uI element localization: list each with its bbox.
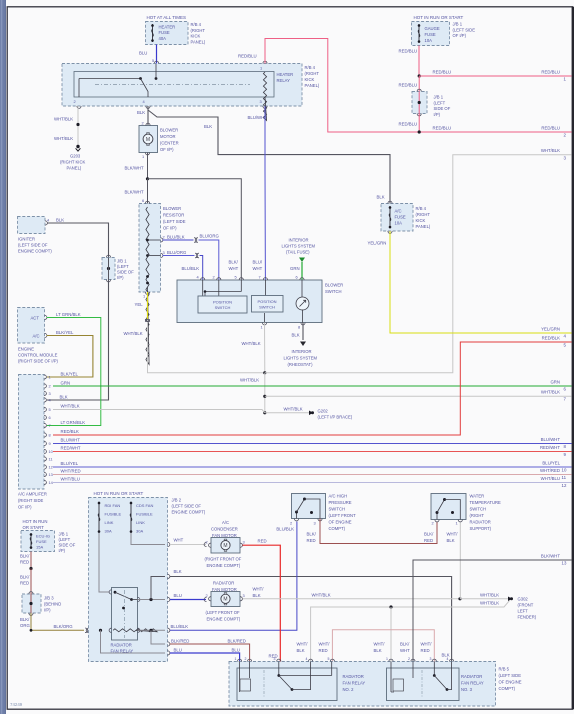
svg-text:RED: RED <box>319 648 328 653</box>
svg-text:BLU/BLK: BLU/BLK <box>182 266 200 271</box>
svg-text:WHT/BLU: WHT/BLU <box>541 476 560 481</box>
svg-text:I/P): I/P) <box>59 548 66 553</box>
svg-text:ORG: ORG <box>20 623 30 628</box>
svg-text:WHT/BLK: WHT/BLK <box>61 404 80 409</box>
svg-text:OF ENGINE: OF ENGINE <box>499 680 522 685</box>
fuse GAUGE FUSE 10A (J/B 1) <box>412 22 476 46</box>
svg-text:COMPT): COMPT) <box>499 686 516 691</box>
svg-text:BLK: BLK <box>204 124 212 129</box>
wire BLU J/B2 to radiator fan relay No.2 pin 1 <box>170 648 240 662</box>
svg-text:PANEL): PANEL) <box>191 39 206 44</box>
svg-text:YEL/GRN: YEL/GRN <box>541 327 560 332</box>
wire BLK/ORG J/B 3 to J/B 2 radiator fan relay coil <box>20 613 101 633</box>
svg-text:RED/BLU: RED/BLU <box>238 54 257 59</box>
wire CDS fusible link to WHT output <box>131 533 170 547</box>
svg-text:5: 5 <box>152 58 154 63</box>
svg-text:J/B 1: J/B 1 <box>434 95 444 100</box>
wire WHT/BLK A/C amplifier pin 5 to junction <box>53 404 265 413</box>
svg-text:BLK/YEL: BLK/YEL <box>56 330 74 335</box>
svg-text:BLU/ORG: BLU/ORG <box>200 234 220 239</box>
svg-text:BLK: BLK <box>253 593 261 598</box>
blower switch bottom pins <box>261 313 306 330</box>
svg-text:A/C: A/C <box>33 334 40 339</box>
svg-text:POSITION: POSITION <box>257 299 276 304</box>
svg-text:HEATER: HEATER <box>159 25 176 30</box>
svg-text:8: 8 <box>298 325 300 330</box>
svg-text:(RIGHT KICK: (RIGHT KICK <box>60 160 85 165</box>
svg-text:6: 6 <box>49 415 51 420</box>
svg-text:1: 1 <box>456 521 458 526</box>
svg-text:10A: 10A <box>395 221 403 226</box>
svg-text:I/P): I/P) <box>44 608 51 613</box>
svg-text:ENGINE COMPT): ENGINE COMPT) <box>207 617 241 622</box>
wire BLU/ORG resistor pin 3 to connector <box>148 250 200 258</box>
svg-text:BLK/: BLK/ <box>400 642 410 647</box>
wire RED/BLU row 1 to right edge <box>419 70 571 82</box>
svg-text:(RIGHT: (RIGHT <box>191 28 206 33</box>
wire BLU/YEL A/C amplifier pin 12 to right edge row 10 <box>53 461 572 473</box>
svg-text:3: 3 <box>274 657 276 661</box>
svg-text:(LEFT SIDE OF: (LEFT SIDE OF <box>18 243 48 248</box>
svg-text:BLU/YEL: BLU/YEL <box>61 461 79 466</box>
svg-text:RED: RED <box>307 538 316 543</box>
svg-text:WHT/: WHT/ <box>421 642 433 647</box>
lamp illumination bulb in blower switch <box>296 297 309 323</box>
svg-text:CONDENSER: CONDENSER <box>211 527 238 532</box>
svg-text:SUPPORT): SUPPORT) <box>470 526 492 531</box>
svg-text:GRN: GRN <box>550 380 560 385</box>
svg-text:BLK/: BLK/ <box>20 575 30 580</box>
svg-text:(LEFT FRONT: (LEFT FRONT <box>329 513 357 518</box>
svg-text:ENGINE: ENGINE <box>18 347 34 352</box>
svg-text:WHT/BLK: WHT/BLK <box>284 407 303 412</box>
node junction RED/BLU row 2 <box>418 130 421 133</box>
svg-text:BLU/WHT: BLU/WHT <box>541 437 561 442</box>
svg-text:J/B 3: J/B 3 <box>44 596 54 601</box>
fuse ECU-IG FUSE 15A (J/B 1) <box>21 531 76 554</box>
svg-text:MOTOR: MOTOR <box>160 134 176 139</box>
switch A/C HIGH PRESSURE SWITCH <box>290 494 356 532</box>
svg-text:2: 2 <box>206 540 208 545</box>
node junction WHT/BLK row 7 <box>263 395 266 398</box>
ground G202 <box>309 409 353 420</box>
svg-text:RED: RED <box>258 539 267 544</box>
svg-text:7: 7 <box>259 275 261 280</box>
svg-text:FUSE: FUSE <box>425 32 436 37</box>
svg-text:SWITCH: SWITCH <box>329 507 346 512</box>
svg-text:SIDE OF: SIDE OF <box>117 270 134 275</box>
wire RDI fusible link to radiator fan relay <box>99 533 109 592</box>
svg-text:BLK/ORG: BLK/ORG <box>54 624 74 629</box>
svg-text:10: 10 <box>562 468 567 473</box>
wire relay contact output to BLU and BLK rows <box>138 574 170 601</box>
svg-text:LT GRN/BLK: LT GRN/BLK <box>61 420 86 425</box>
svg-text:RESISTOR: RESISTOR <box>163 213 184 218</box>
svg-text:G202: G202 <box>318 409 329 414</box>
svg-text:(RIGHT FRONT OF: (RIGHT FRONT OF <box>205 557 242 562</box>
label HOT IN RUN OR START (top right) <box>414 15 464 20</box>
svg-text:BLK/YEL: BLK/YEL <box>61 372 79 377</box>
svg-text:RADIATOR: RADIATOR <box>461 674 482 679</box>
svg-text:WHT/: WHT/ <box>319 642 331 647</box>
relay RADIATOR FAN RELAY No. 2 <box>235 657 366 701</box>
svg-text:6: 6 <box>296 275 298 280</box>
wire BLK/RED ECU-IG fuse to J/B 3 <box>20 552 33 595</box>
svg-text:5: 5 <box>235 275 237 280</box>
wire WHT/RED A/C amplifier pin 13 to right edge row 11 <box>53 468 572 480</box>
wire BLU/ORG connector to blower switch pin 2 <box>199 234 220 281</box>
svg-text:(CENTER: (CENTER <box>160 141 179 146</box>
svg-text:30A: 30A <box>105 529 112 534</box>
svg-text:LINK: LINK <box>105 520 114 525</box>
svg-text:3: 3 <box>243 540 245 545</box>
wire BLK igniter to J/B1 connector <box>47 218 109 258</box>
wire RED/BLU junction to J/B 1 connector <box>399 76 420 92</box>
switch POSITION SWITCH (left) <box>198 296 247 313</box>
svg-text:OF ENGINE: OF ENGINE <box>329 520 352 525</box>
wire BLK J/B2 to radiator fan relay No.3 <box>170 569 452 662</box>
wire BLK heater relay pin 4 to blower motor pin 2 <box>137 106 148 125</box>
svg-text:74249: 74249 <box>10 702 23 707</box>
svg-text:2: 2 <box>245 657 247 661</box>
svg-text:BLK: BLK <box>297 648 305 653</box>
svg-text:SWITCH: SWITCH <box>259 304 275 309</box>
junction block J/B 2 (LEFT SIDE OF ENGINE COMPT) <box>89 498 206 662</box>
svg-text:(LEFT SIDE: (LEFT SIDE <box>499 673 522 678</box>
svg-text:NO. 2: NO. 2 <box>343 687 355 692</box>
svg-text:FUSIBLE: FUSIBLE <box>136 512 153 517</box>
wire BLU/BLK J/B2 to A/C high pressure switch pin 2 <box>170 522 297 631</box>
svg-text:TEMPERATURE: TEMPERATURE <box>470 500 502 505</box>
wire BLU J/B2 to radiator fan motor pin 2 <box>170 593 207 602</box>
switch WATER TEMPERATURE SWITCH <box>431 494 501 544</box>
node junction RED/BLU row 1 <box>418 74 421 77</box>
svg-text:(BEHIND: (BEHIND <box>44 602 61 607</box>
left blue page-edge strip <box>0 0 6 714</box>
svg-text:BLK: BLK <box>292 333 300 338</box>
svg-text:YEL: YEL <box>135 302 144 307</box>
wire RED/BLU gauge fuse down to row 1 junction <box>399 46 420 76</box>
svg-text:WHT/BLK: WHT/BLK <box>242 341 261 346</box>
svg-text:3: 3 <box>430 657 432 661</box>
svg-text:OF I/P): OF I/P) <box>163 226 177 231</box>
svg-text:(LEFT FRONT OF: (LEFT FRONT OF <box>206 610 240 615</box>
svg-text:BLU: BLU <box>139 51 147 56</box>
svg-text:M: M <box>223 543 227 549</box>
svg-text:(LEFT SIDE: (LEFT SIDE <box>453 27 476 32</box>
wire BLK/WHT radiator fan relay No.3 to right edge row 13 <box>413 554 572 662</box>
svg-text:I/P): I/P) <box>117 275 124 280</box>
relay RADIATOR FAN RELAY (in J/B 2) <box>109 588 157 654</box>
svg-text:GRN: GRN <box>290 266 300 271</box>
wire BLK branch to A/C fuse <box>148 110 390 204</box>
svg-text:12: 12 <box>49 465 53 470</box>
svg-text:3: 3 <box>260 99 262 104</box>
svg-text:1: 1 <box>260 66 262 71</box>
svg-text:40A: 40A <box>159 36 167 41</box>
svg-text:BLK/: BLK/ <box>424 532 434 537</box>
svg-text:BLK: BLK <box>60 395 68 400</box>
wire BLK J/B1 connector to A/C amplifier pin 4 <box>47 280 109 401</box>
svg-text:A/C AMPLIFER: A/C AMPLIFER <box>18 492 47 497</box>
svg-text:WHT/BLK: WHT/BLK <box>54 117 73 122</box>
svg-text:RDI FAN: RDI FAN <box>105 503 121 508</box>
svg-text:WHT/RED: WHT/RED <box>540 468 560 473</box>
resistor BLOWER RESISTOR (LEFT SIDE OF I/P) <box>139 198 186 365</box>
svg-text:RED/BLU: RED/BLU <box>541 70 560 75</box>
svg-text:NO. 3: NO. 3 <box>461 687 473 692</box>
switch BLOWER SWITCH <box>177 275 343 323</box>
svg-text:2: 2 <box>142 121 144 126</box>
svg-text:2: 2 <box>432 521 434 526</box>
svg-text:RED/WHT: RED/WHT <box>61 446 81 451</box>
module A/C AMPLIFIER (RIGHT SIDE OF I/P) <box>18 375 54 510</box>
svg-text:4: 4 <box>306 657 308 661</box>
svg-text:WHT/BLK: WHT/BLK <box>541 148 560 153</box>
svg-text:LINK: LINK <box>136 520 145 525</box>
svg-text:BLU/: BLU/ <box>253 260 263 265</box>
wire WHT/BLU A/C amplifier pin 14 to right edge row 12 <box>53 476 572 488</box>
svg-text:WHT/BLK: WHT/BLK <box>480 601 499 606</box>
svg-text:R/B 5: R/B 5 <box>499 667 510 672</box>
svg-text:J/B 1: J/B 1 <box>117 259 127 264</box>
svg-text:3: 3 <box>49 391 51 396</box>
wire BLK/RED J/B2 to radiator fan relay No.2 pin 2 <box>170 639 250 662</box>
svg-text:5: 5 <box>328 657 330 661</box>
fusible link CDS FAN 30A <box>130 502 154 534</box>
svg-text:ENGINE COMPT): ENGINE COMPT) <box>172 510 206 515</box>
svg-text:(LEFT I/P BRACE): (LEFT I/P BRACE) <box>318 415 353 420</box>
svg-text:3: 3 <box>314 521 316 526</box>
svg-text:FENDER): FENDER) <box>518 615 537 620</box>
svg-text:BLU/BLK: BLU/BLK <box>171 624 189 629</box>
wire BLK/WHT junction to blower resistor pin 6 <box>125 179 148 204</box>
svg-text:WATER: WATER <box>470 494 485 499</box>
svg-text:RADIATOR: RADIATOR <box>343 674 364 679</box>
svg-text:FAN RELAY: FAN RELAY <box>461 681 484 686</box>
svg-text:2: 2 <box>163 235 165 240</box>
wire BLU heater fuse to heater relay pin 5 <box>139 45 159 64</box>
wire RED/BLU heater relay pin 1 loop to right edge row 2 <box>238 39 572 133</box>
svg-text:(RIGHT SIDE OF I/P): (RIGHT SIDE OF I/P) <box>18 359 59 364</box>
svg-text:WHT: WHT <box>253 266 263 271</box>
svg-text:GRN: GRN <box>61 381 71 386</box>
svg-text:BLK: BLK <box>447 538 455 543</box>
ground G203 <box>60 145 85 171</box>
svg-text:OF I/P): OF I/P) <box>453 33 467 38</box>
ground G302 <box>508 597 537 620</box>
svg-text:2: 2 <box>206 593 208 598</box>
fuse HEATER FUSE 40A (R/B 4) <box>146 22 206 45</box>
svg-text:BLK: BLK <box>174 569 182 574</box>
svg-text:(RIGHT: (RIGHT <box>305 71 320 76</box>
svg-text:HOT IN RUN OR START: HOT IN RUN OR START <box>414 15 464 20</box>
svg-text:J/B 1: J/B 1 <box>59 532 69 537</box>
svg-text:WHT/BLK: WHT/BLK <box>54 136 73 141</box>
svg-text:RED: RED <box>20 581 29 586</box>
connector J/B 1 (left side of I/P) mid <box>102 255 134 282</box>
svg-text:SIDE OF: SIDE OF <box>59 543 76 548</box>
wire RED/BLK A/C amplifier pin 8 to right edge row 5 <box>53 336 572 436</box>
svg-text:RED: RED <box>20 560 29 565</box>
svg-text:LEFT: LEFT <box>518 609 529 614</box>
svg-text:2: 2 <box>49 384 51 389</box>
svg-text:BLK/WHT: BLK/WHT <box>125 166 144 171</box>
label HOT AT ALL TIMES <box>147 15 187 20</box>
svg-text:HEATER: HEATER <box>277 72 294 77</box>
wire RED/WHT A/C amplifier pin 10 to right edge row 9 <box>53 445 572 457</box>
svg-text:I/P): I/P) <box>434 112 441 117</box>
svg-text:BLK: BLK <box>374 648 382 653</box>
svg-text:FAN RELAY: FAN RELAY <box>343 681 366 686</box>
svg-text:BLK/: BLK/ <box>307 532 317 537</box>
svg-text:(LEFT SIDE OF: (LEFT SIDE OF <box>172 504 202 509</box>
svg-text:RED/BLU: RED/BLU <box>399 49 418 54</box>
svg-text:OF I/P): OF I/P) <box>18 505 32 510</box>
svg-text:WHT/BLK: WHT/BLK <box>312 593 331 598</box>
label HOT IN RUN OR START (ECU-IG) <box>23 519 48 530</box>
wire WHT/BLK radiator fan motor pin 3 to junction <box>243 587 461 599</box>
svg-text:6: 6 <box>142 198 144 203</box>
svg-text:WHT/: WHT/ <box>297 642 309 647</box>
svg-text:8: 8 <box>49 433 51 438</box>
svg-text:BLK/: BLK/ <box>229 260 239 265</box>
svg-text:2: 2 <box>290 521 292 526</box>
svg-text:BLU/WHT: BLU/WHT <box>248 115 268 120</box>
svg-text:RED/BLU: RED/BLU <box>433 70 452 75</box>
svg-text:HOT AT ALL TIMES: HOT AT ALL TIMES <box>147 15 187 20</box>
svg-text:KICK: KICK <box>191 34 201 39</box>
wire LT GRN/BLK ECM ACT to A/C amplifier pin 7 <box>47 312 101 426</box>
svg-text:ECU-IG: ECU-IG <box>36 534 50 539</box>
wire YEL/GRN A/C fuse to right edge row 4 <box>368 231 572 339</box>
svg-text:7: 7 <box>49 423 51 428</box>
wire GRN tail fuse arrow to blower switch pin 6 <box>290 262 302 280</box>
svg-text:RED/WHT: RED/WHT <box>540 445 560 450</box>
svg-text:RED/BLU: RED/BLU <box>399 83 418 88</box>
svg-text:(RIGHT: (RIGHT <box>470 513 485 518</box>
node junction WHT/BLK row 3 <box>263 371 266 374</box>
svg-text:BLK/WHT: BLK/WHT <box>541 554 560 559</box>
svg-text:1: 1 <box>261 325 263 330</box>
svg-text:BLOWER: BLOWER <box>325 283 343 288</box>
svg-text:J/B 2: J/B 2 <box>172 498 182 503</box>
label BLU/BLK at A/C high pressure switch <box>276 527 294 532</box>
svg-text:1: 1 <box>386 657 388 661</box>
wire RED condenser fan motor to radiator fan relay No.2 pin 3 <box>243 539 281 662</box>
node junction BLK/WHT below blower motor <box>146 177 149 180</box>
svg-text:WHT/BLK: WHT/BLK <box>541 390 560 395</box>
svg-text:(LEFT: (LEFT <box>434 100 446 105</box>
svg-text:OF I/P): OF I/P) <box>160 147 174 152</box>
svg-text:WHT/BLK: WHT/BLK <box>240 378 259 383</box>
wire WHT/BLK blower switch pin 1 down to junction <box>242 323 265 373</box>
svg-text:COMPT): COMPT) <box>329 526 346 531</box>
svg-text:BLK: BLK <box>137 110 145 115</box>
wire WHT/BLK junction to right edge row 7 <box>265 390 572 402</box>
svg-text:12: 12 <box>562 483 567 488</box>
svg-text:WHT: WHT <box>400 648 410 653</box>
wire GRN A/C amplifier pin 2 to right edge row 6 <box>53 380 572 392</box>
wire WHT/BLK radiator fan relays No.2/No.3 row <box>311 601 510 662</box>
svg-text:M: M <box>146 137 150 143</box>
svg-text:BLK/RED: BLK/RED <box>228 639 246 644</box>
svg-text:RED: RED <box>424 538 433 543</box>
wire WHT/BLK junction to right edge row 3 <box>240 148 572 383</box>
svg-text:(RIGHT: (RIGHT <box>416 212 431 217</box>
svg-text:3: 3 <box>243 593 245 598</box>
svg-text:FUSE: FUSE <box>36 539 47 544</box>
svg-text:11: 11 <box>562 475 567 480</box>
svg-text:SWITCH: SWITCH <box>470 507 487 512</box>
svg-text:INTERIOR: INTERIOR <box>292 349 312 354</box>
svg-text:FUSE: FUSE <box>395 215 406 220</box>
svg-text:BLU/ORG: BLU/ORG <box>167 250 187 255</box>
svg-text:1: 1 <box>143 294 145 299</box>
svg-text:CDS FAN: CDS FAN <box>136 503 153 508</box>
svg-text:RED/BLU: RED/BLU <box>433 126 452 131</box>
svg-text:ENGINE COMPT): ENGINE COMPT) <box>18 249 52 254</box>
svg-text:WHT/: WHT/ <box>374 642 386 647</box>
svg-text:BLK/: BLK/ <box>20 554 30 559</box>
svg-text:OR START: OR START <box>23 525 45 530</box>
connector J/B 3 (BEHIND I/P) <box>22 592 61 616</box>
junction block R/B 5 (LEFT SIDE OF ENGINE COMPT) <box>229 662 522 707</box>
relay RADIATOR FAN RELAY No. 3 <box>386 657 484 701</box>
svg-text:BLU/BLK: BLU/BLK <box>276 527 294 532</box>
svg-text:LIGHTS SYSTEM: LIGHTS SYSTEM <box>284 356 318 361</box>
svg-text:R/B 4: R/B 4 <box>305 65 316 70</box>
wire BLK/YEL ECM A/C to A/C amplifier pin 1 <box>47 330 93 377</box>
svg-text:G302: G302 <box>518 597 529 602</box>
svg-text:LIGHTS SYSTEM: LIGHTS SYSTEM <box>282 244 316 249</box>
svg-text:J/B 1: J/B 1 <box>453 22 463 27</box>
motor A/C CONDENSER FAN MOTOR <box>205 520 245 568</box>
svg-text:(RIGHT SIDE: (RIGHT SIDE <box>18 498 43 503</box>
svg-text:9: 9 <box>49 441 51 446</box>
wire WHT/BLK vertical between junctions <box>264 373 266 413</box>
svg-text:BLOWER: BLOWER <box>160 128 178 133</box>
svg-text:PRESSURE: PRESSURE <box>329 500 352 505</box>
svg-text:WHT/: WHT/ <box>447 532 459 537</box>
fuse A/C FUSE 10A (R/B 4 RIGHT KICK PANEL) <box>381 201 431 233</box>
svg-text:2: 2 <box>213 275 215 280</box>
svg-text:3: 3 <box>163 250 165 255</box>
svg-text:(LEFT SIDE: (LEFT SIDE <box>163 219 186 224</box>
connector J/B 1 (left side of I/P) top-right <box>412 89 451 117</box>
wire BLU/WHT heater relay pin 3 to blower switch pin 7 <box>248 106 268 280</box>
svg-text:RED/BLK: RED/BLK <box>542 336 561 341</box>
svg-text:BLU: BLU <box>174 593 182 598</box>
svg-text:BLK/RED: BLK/RED <box>171 639 189 644</box>
wire WHT J/B2 to A/C condenser fan motor pin 2 <box>170 538 207 547</box>
svg-text:WHT: WHT <box>229 266 239 271</box>
wire BLK/WHT junction to blower switch pin 5 <box>148 179 242 280</box>
svg-text:KICK: KICK <box>416 218 426 223</box>
svg-text:R/B 4: R/B 4 <box>191 22 202 27</box>
svg-text:BLOWER: BLOWER <box>163 206 181 211</box>
svg-text:M: M <box>223 597 227 603</box>
labels at radiator fan relay No.3 pins <box>374 642 433 654</box>
svg-text:SWITCH: SWITCH <box>325 289 342 294</box>
svg-text:RED/BLU: RED/BLU <box>399 122 418 127</box>
module ENGINE CONTROL MODULE (RIGHT SIDE OF I/P) <box>18 308 59 364</box>
wire WHT/RED between radiator fan relays No.2 and No.3 <box>332 630 434 662</box>
wire WHT/BLK water temperature switch pin 1 down to junction <box>459 522 461 599</box>
svg-text:10A: 10A <box>425 38 433 43</box>
label HOT IN RUN OR START (J/B 2) <box>94 491 144 496</box>
wire WHT/BLK resistor to junction below switch <box>124 322 265 373</box>
